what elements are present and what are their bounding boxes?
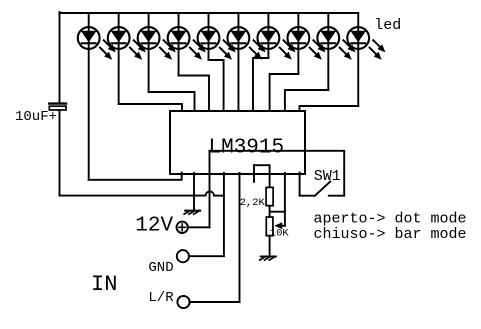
wire LED D3 cathode to chip pin bbox=[149, 92, 195, 111]
svg-text:GND: GND bbox=[148, 260, 173, 276]
svg-text:led: led bbox=[374, 17, 401, 34]
wire top supply rail bbox=[60, 12, 359, 14]
wire pin 4 down to GND terminal bbox=[223, 173, 225, 256]
LED D8 bbox=[288, 13, 326, 74]
wire mode: V+ to SW1 bbox=[210, 151, 345, 196]
svg-text:IN: IN bbox=[91, 272, 117, 297]
wire pin 5 down to L/R terminal bbox=[239, 173, 241, 302]
svg-text:L/R: L/R bbox=[148, 290, 174, 306]
LED D2 bbox=[108, 13, 146, 104]
wire junction R1/pot to pin 8 bbox=[270, 211, 285, 213]
svg-text:12V: 12V bbox=[135, 215, 173, 238]
LED D3 bbox=[138, 13, 176, 92]
LED D6 bbox=[228, 13, 266, 111]
svg-text:LM3915: LM3915 bbox=[209, 137, 285, 160]
wire pin6 to pin7 bridge bbox=[254, 165, 270, 187]
wire GND terminal to pin 4 bbox=[189, 255, 224, 257]
potentiometer wiper arrow bbox=[282, 225, 285, 227]
svg-text:10K: 10K bbox=[270, 227, 290, 239]
svg-text:SW1: SW1 bbox=[314, 168, 341, 185]
wire pin 8 down bbox=[284, 173, 286, 226]
capacitor C1 10uF (polarized) bbox=[49, 104, 66, 110]
wire LED D1 cathode to pin 1 bbox=[89, 173, 182, 180]
terminal +12V bbox=[177, 222, 188, 233]
wire from top rail down to capacitor bbox=[59, 12, 61, 103]
wire capacitor bottom down to node bbox=[59, 110, 61, 196]
wire LED D4 cathode to chip pin bbox=[179, 76, 209, 112]
resistor R1 2,2K bbox=[266, 187, 273, 205]
wire LED D8 cathode to chip pin bbox=[270, 74, 299, 111]
LED D7 bbox=[258, 13, 296, 60]
wire LED D5 cathode to chip pin bbox=[209, 60, 224, 111]
ground under pot bbox=[260, 257, 276, 261]
wire cap bottom to pin 4, with hop over 12V wire bbox=[60, 195, 206, 197]
wire LED D2 cathode to chip pin bbox=[119, 104, 182, 111]
wire L/R terminal to pin 5 bbox=[190, 301, 240, 303]
wire 12V to riser bbox=[188, 226, 210, 228]
LED D1 bbox=[78, 13, 116, 180]
LED D4 bbox=[168, 13, 206, 76]
LED D9 bbox=[317, 13, 355, 90]
terminal GND bbox=[177, 250, 189, 262]
svg-text:chiuso-> bar mode: chiuso-> bar mode bbox=[314, 226, 467, 243]
svg-text:10uF+: 10uF+ bbox=[15, 109, 57, 125]
wire SW1 left contact to pin 9 bbox=[300, 173, 315, 196]
wire pin3/V+ vertical (12V riser) bbox=[209, 151, 211, 228]
IC U1 LM3915 body bbox=[170, 111, 305, 174]
wire LED D9 cathode to chip pin bbox=[285, 90, 328, 111]
svg-text:aperto-> dot mode: aperto-> dot mode bbox=[314, 211, 467, 228]
wire pin 6 stub bbox=[253, 165, 255, 182]
ground near 12V bbox=[184, 211, 200, 215]
wire LED D10 cathode to chip pin bbox=[300, 106, 359, 111]
terminal L/R input bbox=[177, 296, 189, 308]
LED D10 bbox=[347, 13, 385, 106]
LED D5 bbox=[198, 13, 236, 60]
wire pot bottom to ground bbox=[269, 236, 271, 257]
potentiometer R2 10K body bbox=[266, 217, 273, 236]
wire LED D7 cathode to chip pin bbox=[253, 58, 268, 111]
wire pin 2 to ground bbox=[193, 173, 195, 211]
wire R1 bottom to pot top bbox=[269, 206, 271, 217]
svg-text:2,2K: 2,2K bbox=[240, 197, 266, 209]
switch SW1 blade bbox=[315, 182, 330, 196]
